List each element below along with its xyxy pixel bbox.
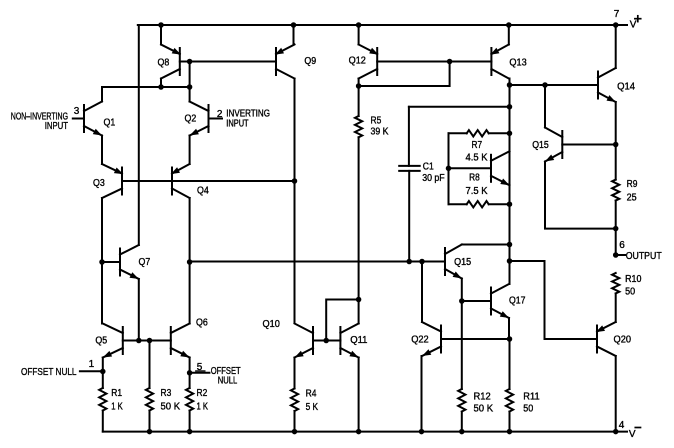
wire Q22 collector up: [421, 262, 423, 323]
transistor Q11: [340, 324, 358, 358]
junction Q12 base tie: [447, 59, 453, 65]
resistor R1: [99, 388, 106, 432]
junction Q15 collector: [507, 242, 513, 248]
svg-text:Q11: Q11: [350, 335, 368, 346]
label pin 6 OUTPUT: [619, 240, 661, 262]
junction Q11 collector tie: [356, 297, 362, 303]
transistor Q1: [84, 102, 102, 136]
transistor Q4: [171, 164, 190, 198]
svg-text:INPUT: INPUT: [45, 121, 68, 132]
svg-text:Q2: Q2: [185, 113, 197, 124]
label pin 5: [197, 362, 203, 373]
label Q15: [532, 140, 549, 151]
label Q11: [350, 335, 368, 346]
junction Q22 collector: [419, 259, 425, 265]
resistor R8: [449, 201, 510, 207]
wire Q4 collector to Q6 collector: [189, 198, 191, 324]
svg-text:Q10: Q10: [263, 319, 281, 330]
wire C1 top to Q13 collector node: [409, 106, 510, 108]
resistor R10: [612, 273, 619, 322]
svg-text:Q13: Q13: [509, 58, 527, 69]
junction Q8 emitter rail: [158, 22, 164, 28]
junction Q15 emitter / R9 bottom: [613, 226, 619, 232]
label Q17: [509, 296, 526, 307]
label R4 5K: [306, 389, 319, 414]
label Q1: [104, 118, 116, 129]
svg-text:R11: R11: [523, 392, 540, 403]
label Q2: [185, 113, 197, 124]
junction Q15 collector tap: [542, 82, 548, 88]
wire Q5 emitter down: [102, 358, 104, 389]
label pin 2: [217, 109, 223, 120]
wire Q15 collector up: [544, 85, 546, 128]
label Q13: [509, 58, 527, 69]
wire VBE multiplier base: [449, 167, 492, 169]
label R1 1K: [111, 388, 123, 413]
junction C1 top: [507, 104, 513, 110]
label NON-INVERTING INPUT: [11, 112, 68, 133]
wire Q12 base-collector tie: [359, 62, 450, 87]
wire Q12-Q13 base: [377, 61, 491, 63]
junction R3 top: [147, 338, 153, 344]
wire Q11 emitter down: [358, 358, 360, 432]
resistor R4: [291, 389, 298, 432]
junction Q3 collector / Q7 base: [99, 259, 105, 265]
svg-text:Q8: Q8: [158, 57, 170, 68]
label R2 1K: [197, 388, 209, 413]
transistor Q8: [161, 45, 181, 79]
wire Q15 emitter down to R12: [461, 279, 463, 390]
junction Q7 emitter / Q5-Q6 base: [136, 338, 142, 344]
label R3 50K: [161, 388, 181, 413]
wire Q7 emitter down: [138, 279, 140, 341]
svg-text:7.5 K: 7.5 K: [466, 186, 488, 197]
junction Q11 emitter rail: [356, 429, 362, 435]
label Q10: [263, 319, 281, 330]
wire R7-R8 left loop: [448, 133, 450, 204]
junction output node: [613, 252, 619, 258]
label Q7: [139, 257, 151, 268]
svg-text:50: 50: [625, 287, 635, 298]
svg-text:Q6: Q6: [196, 318, 208, 329]
pin 2 lead: [209, 118, 223, 120]
label Q9: [304, 56, 316, 67]
wire Q6 emitter down: [189, 358, 191, 389]
svg-text:Q12: Q12: [349, 56, 367, 67]
wire Q8-Q9 base: [180, 61, 276, 63]
transistor Q12: [359, 45, 379, 79]
junction R11 bottom: [507, 429, 513, 435]
svg-text:INPUT: INPUT: [226, 118, 248, 129]
transistor Q9: [275, 45, 295, 79]
label C1 30pF: [422, 161, 445, 184]
svg-text:Q15: Q15: [454, 257, 471, 268]
label Q6: [196, 318, 208, 329]
transistor Q14: [598, 68, 616, 102]
transistor Q6: [171, 324, 190, 358]
junction Q10-Q11 base: [323, 338, 329, 344]
svg-text:Q3: Q3: [93, 178, 105, 189]
svg-text:Q1: Q1: [104, 118, 116, 129]
svg-text:7: 7: [614, 9, 620, 20]
wire Q15 collector right: [462, 244, 510, 246]
junction Q22 emitter rail: [419, 429, 425, 435]
pin 4 V-: [613, 420, 641, 440]
svg-text:5: 5: [197, 362, 203, 373]
pin 7 V+: [613, 9, 641, 31]
label R8 7.5K: [466, 172, 488, 197]
junction Q4 collector / second stage: [187, 259, 193, 265]
wire Q9 emitter to V+: [293, 25, 295, 45]
svg-text:C1: C1: [423, 161, 434, 172]
svg-text:1 K: 1 K: [111, 402, 123, 413]
label R5 39K: [371, 115, 389, 137]
junction R8 right: [507, 201, 513, 207]
wire Q5-Q6 base: [123, 340, 171, 342]
junction R7 right: [507, 131, 513, 137]
transistor Q17: [491, 284, 509, 318]
svg-text:2: 2: [217, 109, 223, 120]
label Q20: [614, 335, 632, 346]
wire Q11 collector up to R5: [358, 137, 360, 323]
junction Q14 emitter / Q15 base / R9: [613, 142, 619, 148]
svg-text:Q15: Q15: [532, 140, 549, 151]
resistor R7: [449, 130, 510, 136]
transistor Q5: [103, 324, 123, 358]
wire Q13 collector to Q14 base: [510, 84, 599, 86]
svg-text:Q7: Q7: [139, 257, 151, 268]
wire Q10-Q11 base: [313, 340, 340, 342]
junction Q13 collector: [507, 82, 513, 88]
svg-text:R9: R9: [627, 179, 638, 190]
svg-text:R2: R2: [197, 388, 208, 399]
svg-text:OUTPUT: OUTPUT: [626, 251, 662, 262]
wire Q1 collector up: [101, 87, 103, 102]
wire Q12 emitter to V+: [358, 25, 360, 45]
junction Q12 emitter rail: [356, 22, 362, 28]
V- rail: [103, 431, 627, 433]
transistor Q2: [190, 102, 209, 136]
svg-text:4: 4: [619, 420, 625, 431]
junction Q2 collector branch: [187, 84, 193, 90]
junction Q9 collector / Q3-Q4 base: [292, 178, 298, 184]
junction VBE multiplier base: [446, 166, 452, 172]
label Q4: [197, 186, 209, 197]
svg-text:Q5: Q5: [95, 336, 107, 347]
transistor Q15 second stage: [445, 245, 462, 279]
wire Q17 collector to Q20 base: [510, 261, 598, 339]
wire Q22 emitter down: [421, 356, 423, 432]
wire Q15 base: [562, 144, 615, 146]
label Q12: [349, 56, 367, 67]
junction Q12 collector / R5: [356, 83, 362, 89]
transistor Q10: [295, 324, 314, 358]
svg-text:50 K: 50 K: [474, 403, 494, 414]
label R7 4.5K: [466, 140, 488, 164]
transistor Q15: [545, 128, 562, 162]
label INVERTING INPUT: [226, 109, 270, 130]
pin 5 lead: [190, 371, 210, 373]
label pin 3: [74, 106, 80, 117]
wire Q7 base: [102, 261, 120, 263]
wire Q9 collector to Q10 collector: [294, 79, 296, 324]
svg-text:Q9: Q9: [304, 56, 316, 67]
wire Q8 base-collector tie: [189, 62, 191, 88]
label R9 25: [627, 179, 638, 204]
resistor R12: [458, 389, 465, 432]
svg-text:25: 25: [627, 193, 637, 204]
wire Q3-Q4 base: [122, 180, 295, 182]
svg-text:R1: R1: [111, 388, 122, 399]
svg-text:3: 3: [74, 106, 80, 117]
wire Q17 base: [462, 300, 491, 302]
svg-text:V: V: [629, 429, 636, 440]
label pin 1: [89, 359, 95, 370]
label Q15 second stage: [454, 257, 471, 268]
junction Q8 base tie: [187, 59, 193, 65]
pin 3 lead: [73, 118, 84, 120]
transistor VBE multiplier: [491, 151, 510, 185]
svg-text:R8: R8: [469, 172, 480, 183]
wire Q13 collector node: [509, 79, 511, 285]
wire Q1 emitter to Q3 emitter: [101, 136, 103, 165]
label R12 50K: [474, 392, 494, 415]
label Q8: [158, 57, 170, 68]
svg-text:Q22: Q22: [411, 334, 429, 345]
svg-text:1: 1: [89, 359, 95, 370]
svg-text:6: 6: [619, 240, 625, 251]
svg-text:V: V: [630, 20, 637, 31]
junction Q9 emitter rail: [291, 22, 297, 28]
svg-text:Q14: Q14: [617, 82, 635, 93]
label OFFSET NULL left: [21, 367, 77, 378]
label R10 50: [625, 274, 642, 298]
wire Q15 emitter to output node: [545, 162, 616, 229]
junction Q13 emitter rail: [506, 22, 512, 28]
wire Q12 collector down: [358, 79, 360, 87]
svg-text:R7: R7: [472, 140, 483, 151]
pin 1 lead: [80, 370, 103, 372]
junction pin 1 offset null: [100, 369, 106, 375]
resistor R11: [506, 339, 513, 432]
svg-text:5 K: 5 K: [306, 402, 319, 413]
svg-text:4.5 K: 4.5 K: [466, 152, 488, 163]
junction Q17 collector branch: [507, 258, 513, 264]
svg-text:R4: R4: [306, 389, 317, 400]
label Q5: [95, 336, 107, 347]
svg-text:50 K: 50 K: [161, 402, 181, 413]
svg-text:R5: R5: [371, 115, 382, 126]
wire Q14 emitter down: [615, 102, 617, 145]
resistor R3: [146, 341, 153, 432]
wire Q17 emitter down: [508, 318, 510, 339]
svg-text:R10: R10: [625, 274, 642, 285]
junction Q8 collector: [158, 84, 164, 90]
wire Q20 collector to V- rail: [615, 356, 617, 432]
wire Q8 emitter to V+: [160, 25, 162, 45]
pin 6 lead: [616, 254, 625, 256]
wire Q2 emitter to Q4 emitter: [189, 136, 191, 165]
capacitor C1: [399, 107, 420, 262]
label Q22: [411, 334, 429, 345]
wire Q10 emitter down: [294, 358, 296, 389]
wire V+ rail to Q7 collector: [138, 25, 140, 245]
resistor R2: [186, 388, 193, 432]
wire Q3 collector to Q5 collector: [101, 198, 103, 324]
junction Q17 base: [459, 298, 465, 304]
svg-text:50: 50: [523, 403, 533, 414]
label Q3: [93, 178, 105, 189]
wire Q8 collector down: [160, 79, 162, 88]
label Q14: [617, 82, 635, 93]
junction R12 bottom: [459, 429, 465, 435]
junction R2 bottom: [187, 429, 193, 435]
wire Q10-Q11 base to Q11 collector: [326, 300, 358, 341]
wire Q4 collector to Q15 base: [190, 261, 445, 263]
label R11 50: [523, 392, 540, 415]
transistor Q13: [490, 45, 509, 79]
svg-text:Q17: Q17: [509, 296, 526, 307]
svg-text:R3: R3: [161, 388, 172, 399]
junction R3 bottom: [147, 429, 153, 435]
label OFFSET NULL right: [211, 366, 241, 386]
svg-text:Q20: Q20: [614, 335, 632, 346]
svg-text:NULL: NULL: [218, 375, 238, 386]
svg-text:39 K: 39 K: [371, 127, 389, 138]
junction pin 5 offset null: [187, 370, 193, 376]
wire Q14 collector to V+: [615, 25, 617, 68]
transistor Q3: [102, 164, 123, 198]
wire Q2 collector up: [189, 87, 191, 102]
junction R4 bottom: [292, 429, 298, 435]
svg-text:R12: R12: [474, 392, 492, 403]
svg-text:30 pF: 30 pF: [422, 173, 445, 184]
transistor Q22: [422, 322, 441, 356]
svg-text:OFFSET NULL: OFFSET NULL: [21, 367, 77, 378]
resistor R9: [612, 145, 619, 256]
V+ rail: [138, 24, 627, 26]
wire Q13 emitter to V+: [508, 25, 510, 45]
svg-text:Q4: Q4: [197, 186, 209, 197]
wire Q1/Q8/Q2 collectors: [102, 86, 190, 88]
junction Q17 emitter / Q22 base / R11: [507, 336, 513, 342]
transistor Q7: [120, 245, 139, 279]
wire Q22 base: [441, 338, 510, 340]
wire VBE emitter down: [509, 185, 511, 204]
transistor Q20: [596, 322, 616, 356]
junction C1 bottom: [406, 259, 412, 265]
resistor R5: [355, 86, 362, 137]
svg-text:1 K: 1 K: [197, 402, 209, 413]
